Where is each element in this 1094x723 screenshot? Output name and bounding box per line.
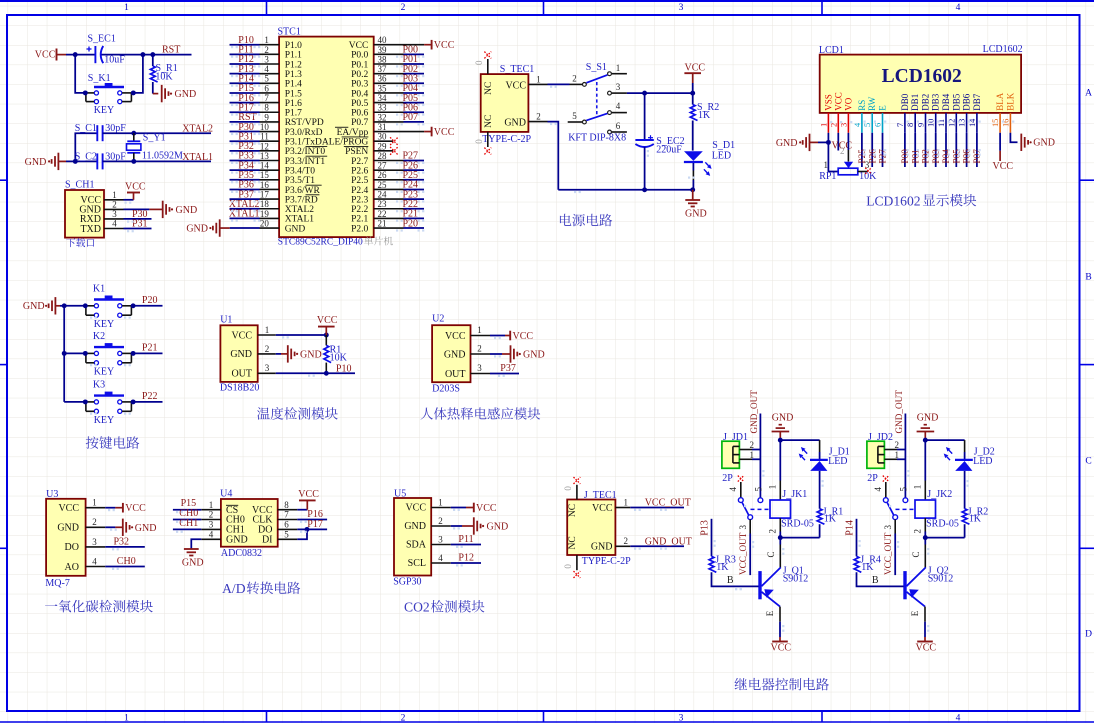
svg-text:TYPE-C-2P: TYPE-C-2P	[482, 134, 531, 145]
relay coil pin 1	[912, 481, 925, 501]
svg-text:220uF: 220uF	[656, 144, 682, 155]
connector J_JD2 2P	[867, 432, 893, 484]
LCD pin 5 RW	[863, 96, 877, 133]
pin 5 stub	[568, 111, 583, 122]
svg-text:P3.2/INT0: P3.2/INT0	[285, 147, 326, 157]
resistor S_R2 1K	[690, 93, 719, 121]
svg-text:1: 1	[623, 497, 628, 507]
svg-text:1: 1	[819, 123, 828, 127]
svg-text:0: 0	[474, 139, 484, 144]
svg-text:11: 11	[260, 132, 269, 142]
wire U5 pin1 to VCC	[451, 507, 474, 509]
svg-text:P0.2: P0.2	[351, 70, 368, 80]
svg-text:VCC: VCC	[349, 41, 369, 51]
MCU pin 29	[374, 141, 394, 151]
relay contact pin 3 (common)	[738, 515, 753, 534]
pin 2	[471, 344, 491, 354]
wire pin 16 net P36	[230, 188, 260, 190]
svg-text:3: 3	[679, 3, 684, 13]
wire LCD net P03	[935, 133, 937, 167]
svg-text:P2.0: P2.0	[351, 224, 368, 234]
svg-text:S_Y1: S_Y1	[143, 133, 166, 144]
svg-text:2: 2	[829, 123, 838, 127]
svg-text:GND: GND	[230, 349, 252, 360]
svg-text:1: 1	[536, 74, 541, 84]
svg-text:P21: P21	[142, 343, 158, 354]
power GND (LCD right)	[1021, 134, 1055, 151]
no-ERC mark pin29	[390, 147, 398, 155]
svg-text:DB1: DB1	[910, 94, 920, 111]
svg-text:GND: GND	[776, 138, 798, 149]
wire coil rail to transistor collector	[779, 538, 781, 545]
wire GND_OUT to relay common	[904, 414, 906, 499]
wire LCD net P27	[882, 133, 884, 167]
wire LED to GND rail	[692, 163, 694, 190]
svg-text:CO2: CO2	[404, 600, 430, 615]
svg-text:DB2: DB2	[921, 94, 931, 111]
svg-text:GND_OUT: GND_OUT	[645, 536, 692, 547]
svg-text:P37: P37	[500, 363, 516, 374]
MCU pin 4	[260, 64, 280, 74]
svg-text:5: 5	[899, 486, 909, 491]
relay switch arm	[887, 503, 915, 515]
MCU pin 2	[260, 45, 280, 55]
power port VCC (pin40)	[424, 40, 455, 51]
wire pin 26 net P25	[404, 179, 425, 181]
MCU pin 12	[260, 141, 280, 151]
pin 1	[86, 498, 106, 508]
svg-text:10uF: 10uF	[104, 54, 125, 65]
svg-text:32: 32	[378, 112, 387, 122]
svg-text:SGP30: SGP30	[393, 577, 421, 588]
wire LCD net P25	[861, 133, 863, 167]
no-ERC mark J_TEC1 bottom	[574, 571, 581, 578]
svg-text:C: C	[766, 551, 776, 557]
svg-text:VCC: VCC	[434, 40, 455, 51]
wire pin 13 net P33	[230, 160, 260, 162]
svg-text:15: 15	[260, 170, 270, 180]
resistor R1 10K	[324, 335, 348, 373]
pin 3	[471, 363, 491, 373]
svg-text:40: 40	[378, 35, 388, 45]
no-ERC mark RP1 pin3	[865, 168, 871, 174]
junction	[923, 535, 928, 540]
MCU pin 22	[374, 209, 404, 219]
svg-text:2: 2	[438, 516, 443, 526]
wire LCD pin16 BLK to GND	[1010, 133, 1017, 143]
svg-text:LCD1602: LCD1602	[866, 193, 921, 208]
svg-text:1K: 1K	[716, 562, 729, 573]
wire LCD net P04	[945, 133, 947, 167]
wire LED to J_R2	[964, 471, 966, 509]
svg-text:22: 22	[378, 209, 387, 219]
pin 4	[104, 219, 124, 229]
svg-text:35: 35	[378, 83, 388, 93]
ADC U4 ADC0832	[220, 489, 278, 560]
wire up to S_C1	[75, 133, 97, 161]
junction	[324, 333, 329, 338]
svg-text:2P: 2P	[722, 473, 733, 484]
svg-text:P3.7/RD: P3.7/RD	[285, 195, 318, 205]
svg-text:9: 9	[264, 112, 269, 122]
wire key K2 to P21	[131, 352, 162, 354]
svg-text:14: 14	[260, 161, 270, 171]
svg-text:3: 3	[264, 54, 269, 64]
wire pin 27 net P26	[404, 169, 425, 171]
svg-text:2: 2	[536, 112, 541, 122]
svg-text:S_S1: S_S1	[586, 62, 607, 73]
LED S_D1	[684, 140, 735, 176]
svg-text:10: 10	[260, 122, 270, 132]
MCU pin 11	[260, 132, 280, 142]
svg-text:7: 7	[284, 510, 289, 520]
resistor J_R2 1K	[962, 506, 988, 524]
LED J_D2	[944, 447, 995, 471]
svg-text:1: 1	[124, 714, 129, 723]
svg-text:U4: U4	[220, 489, 232, 500]
wire U2 pin1 to VCC	[490, 335, 510, 337]
svg-text:P1.2: P1.2	[285, 60, 302, 70]
svg-text:LCD1602: LCD1602	[882, 66, 962, 87]
svg-text:4: 4	[92, 556, 97, 566]
wire S_R2 to LED	[692, 121, 694, 151]
svg-text:P0.4: P0.4	[351, 89, 368, 99]
no-ERC mark relay pin4	[738, 476, 744, 482]
wire LCD pin3 VO to RP1 wiper	[847, 133, 849, 162]
svg-text:9: 9	[917, 123, 926, 127]
section label renti reshidian ganying mokuai	[421, 408, 433, 420]
wire pin2 to GND	[124, 208, 163, 210]
svg-text:XTAL2: XTAL2	[182, 123, 213, 134]
svg-text:OUT: OUT	[231, 369, 252, 380]
svg-text:30: 30	[378, 132, 388, 142]
svg-text:VCC: VCC	[833, 92, 843, 111]
LCD pin 2 VCC	[829, 92, 843, 133]
svg-text:12: 12	[260, 141, 269, 151]
svg-text:8: 8	[906, 123, 915, 127]
MCU pin 21	[374, 218, 404, 228]
svg-text:1K: 1K	[698, 110, 711, 121]
svg-text:3: 3	[477, 363, 482, 373]
svg-text:DS18B20: DS18B20	[220, 383, 259, 394]
svg-text:NC: NC	[484, 115, 494, 128]
wire J_TEC1 pin2 GND_OUT	[630, 545, 684, 547]
wire pin 4 net P13	[230, 73, 260, 75]
svg-text:P20: P20	[142, 295, 158, 306]
svg-text:37: 37	[378, 64, 388, 74]
label xiazaikou	[66, 238, 75, 247]
svg-text:E: E	[910, 610, 920, 616]
pin 1	[528, 74, 547, 84]
svg-text:16: 16	[1001, 119, 1010, 127]
MCU pin 19	[260, 209, 280, 219]
wire rail to key K1	[64, 305, 86, 307]
svg-text:GND: GND	[487, 521, 509, 532]
svg-text:P1.5: P1.5	[285, 89, 302, 99]
MCU pin 33	[374, 103, 404, 113]
svg-text:1K: 1K	[824, 514, 837, 525]
svg-text:P1.1: P1.1	[285, 51, 302, 61]
power port VCC (power circuit)	[684, 63, 705, 83]
svg-text:VCC: VCC	[445, 331, 466, 342]
MCU right pin names	[322, 41, 369, 234]
svg-text:3: 3	[883, 524, 893, 529]
wire pin 14 net P34	[230, 169, 260, 171]
wire U1 pin3 OUT to P10	[276, 372, 355, 374]
section label jidianqi kongzhi dianlu	[735, 678, 748, 690]
MCU pin 25	[374, 180, 404, 190]
wire pin 25 net P24	[404, 188, 425, 190]
svg-text:GND: GND	[504, 117, 526, 128]
no-ERC mark J_TEC1 top	[574, 477, 581, 484]
svg-text:VCC: VCC	[916, 642, 937, 653]
MCU pin 5	[260, 74, 280, 84]
svg-text:1: 1	[895, 450, 900, 460]
svg-text:10K: 10K	[155, 71, 173, 82]
pin 1	[104, 190, 124, 200]
svg-text:P10: P10	[336, 364, 352, 375]
svg-text:D: D	[1085, 630, 1092, 640]
wire GND_OUT to relay common	[759, 414, 761, 499]
wire pin 9 net RST	[230, 121, 260, 123]
svg-text:GND: GND	[1033, 138, 1055, 149]
connector J_TEC1 TYPE-C-2P	[567, 490, 631, 567]
relay J_JK1 SRD-05	[770, 489, 814, 529]
junction	[131, 399, 136, 404]
wire pin3 P30	[124, 218, 152, 220]
wire pin 5 net P14	[230, 82, 260, 84]
wire pin 12 net P32	[230, 150, 260, 152]
capacitor S_C1 30pF	[75, 123, 127, 141]
pin 4	[86, 556, 106, 566]
svg-text:6: 6	[616, 121, 621, 131]
MCU pin 10	[260, 122, 280, 132]
power GND (U1)	[288, 345, 322, 362]
svg-text:P2.1: P2.1	[351, 215, 368, 225]
junction	[305, 527, 310, 532]
svg-text:6: 6	[874, 123, 883, 127]
svg-text:12: 12	[947, 119, 956, 127]
svg-text:KEY: KEY	[94, 319, 115, 330]
svg-text:GND: GND	[175, 89, 197, 100]
junction	[324, 371, 329, 376]
svg-text:24: 24	[378, 190, 388, 200]
svg-text:1: 1	[750, 450, 755, 460]
svg-text:DB5: DB5	[951, 93, 961, 111]
junction	[62, 303, 67, 308]
svg-text:P3.3/INT1: P3.3/INT1	[285, 157, 326, 167]
pin 0 top	[474, 59, 488, 74]
svg-text:39: 39	[378, 45, 388, 55]
wire pin 34 net P05	[404, 102, 425, 104]
pin 3	[201, 520, 221, 530]
wire U4 pin2 CH0	[173, 519, 201, 521]
svg-text:25: 25	[378, 180, 388, 190]
svg-text:S9012: S9012	[783, 574, 809, 585]
svg-text:0: 0	[563, 486, 573, 491]
pin 4 stub	[612, 101, 627, 112]
LCD pin 3 VO	[839, 97, 853, 132]
wire pin 8 net P17	[230, 111, 260, 113]
pin 1	[431, 498, 451, 508]
junction	[642, 91, 647, 96]
power port VCC (pin31)	[424, 127, 455, 138]
svg-text:10K: 10K	[330, 353, 348, 364]
wire coil rail to transistor collector	[924, 538, 926, 545]
power port VCC (J_Q2 emitter)	[916, 642, 937, 654]
svg-text:P0.6: P0.6	[351, 109, 368, 119]
wire switch pin3 to VCC rail	[627, 92, 693, 94]
pin 4	[431, 553, 451, 563]
svg-text:33: 33	[378, 103, 388, 113]
svg-text:CH0: CH0	[117, 556, 136, 567]
junction	[131, 90, 136, 95]
MCU pin 3	[260, 54, 280, 64]
MCU pin 35	[374, 83, 404, 93]
svg-text:GND: GND	[404, 521, 426, 532]
key K2 KEY	[86, 331, 131, 377]
svg-text:E: E	[765, 610, 775, 616]
svg-text:K3: K3	[93, 380, 105, 391]
svg-text:13: 13	[958, 119, 967, 127]
svg-text:KEY: KEY	[94, 366, 115, 377]
power GND (S_CH1)	[163, 201, 197, 218]
wire U1 pin2 to GND	[276, 353, 288, 355]
no-ERC mark relay pin4	[883, 476, 889, 482]
wire LCD net P01	[914, 133, 916, 167]
wire rail to key K2	[64, 352, 86, 354]
MCU pin 31	[374, 122, 424, 132]
svg-text:S_EC1: S_EC1	[88, 34, 116, 45]
svg-text:21: 21	[378, 218, 387, 228]
svg-text:18: 18	[260, 199, 270, 209]
svg-text:27: 27	[378, 161, 388, 171]
label danpianji	[364, 236, 373, 245]
capacitor S_C2 30pF	[75, 151, 127, 169]
pin 2	[201, 510, 221, 520]
svg-text:GND: GND	[591, 542, 613, 553]
MCU pin 13	[260, 151, 280, 161]
svg-text:1: 1	[767, 485, 777, 490]
wire VCC to S_EC1	[66, 54, 95, 56]
LCD pin 1 VSS	[819, 94, 833, 133]
svg-text:GND_OUT: GND_OUT	[749, 390, 759, 434]
wire U5 pin2 to GND	[451, 525, 474, 527]
wire pin4 P31	[124, 228, 152, 230]
svg-text:P1.3: P1.3	[285, 70, 302, 80]
power port VCC (reset circuit)	[35, 49, 66, 61]
svg-text:4: 4	[956, 3, 961, 13]
svg-text:P1.0: P1.0	[285, 41, 302, 51]
MCU pin 32	[374, 112, 404, 122]
wire P13 to J_R3	[711, 519, 713, 557]
wire S_TEC1 pin2 to bottom rail	[548, 122, 559, 190]
svg-text:5: 5	[863, 123, 872, 127]
bottom GND rail	[558, 189, 692, 191]
power port VCC (U3)	[123, 503, 146, 514]
wire LCD pin1 VSS to GND	[827, 133, 829, 143]
pin 1	[615, 497, 630, 507]
power port VCC (S_CH1)	[125, 181, 146, 200]
pin 2	[431, 516, 451, 526]
svg-text:MQ-7: MQ-7	[45, 578, 69, 589]
svg-text:P1.4: P1.4	[285, 80, 302, 90]
no-ERC mark pin30	[390, 137, 398, 145]
LCD pin 4 RS	[853, 100, 867, 133]
svg-text:RW: RW	[867, 96, 877, 111]
power port VCC (U2)	[510, 331, 533, 342]
wire coil pin2 to rail	[779, 532, 781, 538]
junction	[690, 187, 695, 192]
wire U4 pin4 to GND	[191, 539, 201, 548]
wire S_TEC1 pin1 to switch	[548, 83, 570, 85]
svg-text:C: C	[911, 551, 921, 557]
pin 1	[258, 325, 276, 335]
svg-text:2P: 2P	[867, 473, 878, 484]
pin 1	[201, 500, 221, 510]
relay coil pin 2	[913, 518, 926, 533]
svg-text:KFT DIP-8X8: KFT DIP-8X8	[568, 132, 626, 143]
crystal S_Y1 11.0592M	[127, 133, 184, 162]
svg-text:2: 2	[112, 199, 117, 209]
svg-text:P2.4: P2.4	[351, 186, 368, 196]
svg-text:GND: GND	[772, 413, 794, 424]
svg-text:RS: RS	[857, 100, 867, 111]
svg-text:GND: GND	[685, 209, 707, 220]
svg-text:KEY: KEY	[94, 105, 115, 116]
wire J_TEC1 pin1 VCC_OUT	[630, 507, 684, 509]
potentiometer RP1 10K	[819, 142, 877, 181]
svg-text:ALE/PROG: ALE/PROG	[322, 138, 369, 148]
svg-text:2: 2	[623, 536, 628, 546]
LCD pin 13 DB6	[958, 93, 972, 133]
svg-text:DB6: DB6	[962, 93, 972, 111]
svg-text:1: 1	[265, 325, 270, 335]
svg-text:4: 4	[728, 486, 738, 491]
MCU pin 23	[374, 199, 404, 209]
svg-text:P0.1: P0.1	[351, 60, 368, 70]
section label wendu jiance mokuai	[257, 407, 270, 419]
svg-text:2: 2	[209, 510, 214, 520]
svg-text:VCC_OUT: VCC_OUT	[883, 532, 893, 575]
junction	[83, 90, 88, 95]
junction	[131, 159, 136, 164]
power GND (MCU pin20)	[186, 219, 229, 236]
svg-text:19: 19	[260, 209, 270, 219]
svg-text:VCC: VCC	[125, 503, 146, 514]
svg-text:P12: P12	[458, 553, 474, 564]
svg-text:P2.6: P2.6	[351, 166, 368, 176]
junction	[923, 438, 928, 443]
wire U3 pin2 to GND	[105, 526, 122, 528]
MCU pin 28	[374, 151, 404, 161]
svg-text:11.0592M: 11.0592M	[142, 151, 183, 162]
MCU pin 34	[374, 93, 404, 103]
junction	[131, 351, 136, 356]
svg-text:XTAL1: XTAL1	[285, 215, 315, 225]
wire emitter to VCC	[779, 622, 781, 642]
svg-text:S_C1: S_C1	[75, 123, 97, 134]
svg-text:3: 3	[679, 714, 684, 723]
wire GND to LED J_D1	[780, 440, 819, 459]
relay J_JK2 SRD-05	[915, 489, 959, 529]
svg-text:SDA: SDA	[406, 540, 427, 551]
svg-text:GND: GND	[917, 413, 939, 424]
MCU pin 30	[374, 132, 394, 142]
pin 1 J_JD1	[739, 450, 754, 460]
wire rail coil to resistor	[925, 537, 964, 539]
power GND (U2)	[511, 345, 545, 362]
